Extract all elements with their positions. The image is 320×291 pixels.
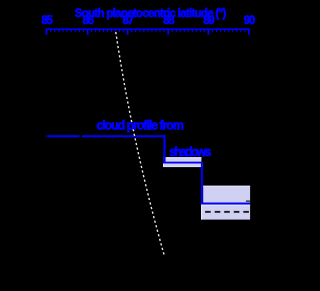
svg-text:90: 90	[244, 15, 255, 27]
svg-text:South planetocentric latitude: South planetocentric latitude (°)	[75, 8, 227, 20]
svg-text:cloud profile from: cloud profile from	[96, 118, 183, 132]
svg-text:85: 85	[41, 15, 53, 27]
svg-text:shadows: shadows	[169, 145, 211, 159]
